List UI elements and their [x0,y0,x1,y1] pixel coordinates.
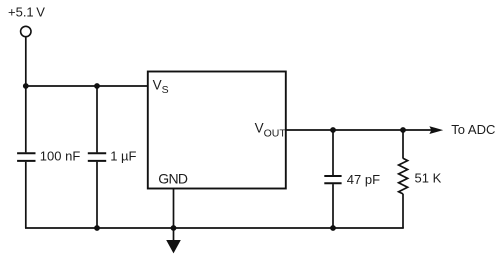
capacitor C2 1 uF [88,153,106,161]
svg-text:51 K: 51 K [415,170,442,185]
arrow to ADC [429,126,443,134]
svg-text:47 pF: 47 pF [347,172,380,187]
capacitor C3 47 pF [324,176,341,183]
node: junction at C2 tap [94,83,100,89]
node: junction at C3 tap [330,127,336,133]
svg-text:GND: GND [158,171,188,187]
wire: C2 upper lead [96,86,98,152]
resistor R1 51 K (zigzag) [399,158,408,194]
wire: R1 lower lead [402,194,404,228]
wire: VOUT output rail [286,129,432,131]
wire: C3 lower lead [332,184,334,228]
capacitor C1 100 nF [17,153,35,161]
wire: C1 lower lead [25,162,27,228]
svg-text:1 µF: 1 µF [110,148,136,163]
wire: bottom ground rail [25,227,404,229]
wire: C3 upper lead [332,130,334,175]
svg-text:To ADC: To ADC [451,122,495,137]
node: junction C3 / ground rail [330,225,336,231]
op-amp / regulator U1 (IC body) [148,72,286,189]
node: junction GND pin / ground rail [171,225,177,231]
wire: C1 upper lead [25,86,27,152]
wire: R1 upper lead [402,130,404,159]
node: junction at supply / C1 [23,83,29,89]
svg-text:+5.1 V: +5.1 V [8,4,45,19]
svg-text:100 nF: 100 nF [40,148,81,163]
wire: terminal to top rail [25,37,27,86]
node: junction at R1 tap [400,127,406,133]
wire: C2 lower lead [96,162,98,228]
node: junction C2 / ground rail [94,225,100,231]
wire: top supply rail [25,85,148,87]
ground [166,228,181,253]
wire: GND pin lead [173,189,175,229]
power terminal (open circle) [21,26,31,36]
